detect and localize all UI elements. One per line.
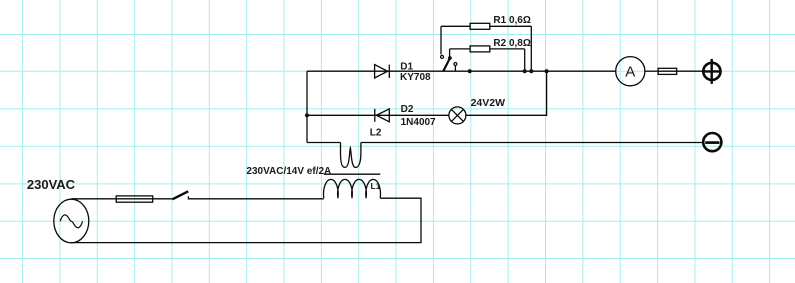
wire: lamp to rail	[465, 71, 546, 115]
svg-text:A: A	[625, 64, 635, 81]
switch S2 (selects R1/R2): contact wire from R1	[440, 26, 442, 54]
wire: ammeter to fuse	[645, 70, 658, 72]
wire: fuse to switch	[153, 198, 173, 200]
resistor R2 0,8 ohm	[450, 46, 525, 71]
svg-text:R2 0,8Ω: R2 0,8Ω	[493, 38, 530, 49]
ammeter A	[616, 57, 645, 86]
switch S1 lever	[172, 191, 188, 199]
inductor L1 transformer primary	[324, 179, 381, 198]
inductor L2 transformer secondary	[341, 143, 361, 168]
wire: minus rail left of coil	[307, 142, 341, 144]
diode D1 KY708	[375, 65, 390, 78]
node: junction dot R1 drop	[529, 69, 533, 73]
node: junction dot lamp branch	[545, 69, 549, 73]
node: junction dot on rail after switch	[468, 69, 472, 73]
resistor R1 0,6 ohm	[441, 23, 531, 71]
wire: primary from source to fuse	[71, 198, 116, 200]
switch S2 lever	[443, 58, 450, 71]
transformer core line (underline of rating)	[324, 173, 381, 175]
svg-text:L1: L1	[371, 181, 381, 191]
svg-text:R1 0,6Ω: R1 0,6Ω	[493, 15, 530, 26]
terminal minus	[703, 133, 721, 151]
switch S2 contact circle right	[454, 63, 457, 66]
source 230VAC	[54, 199, 89, 243]
lamp 24V2W	[449, 107, 466, 124]
wire: D2 branch horizontal	[307, 114, 449, 116]
svg-text:230VAC: 230VAC	[27, 177, 76, 192]
wire: primary right side down to bottom rail	[71, 198, 421, 242]
switch S2 lever pivot dot	[448, 56, 452, 60]
wire: minus rail right of coil	[361, 142, 704, 144]
wire: left vertical bus	[306, 71, 308, 142]
node: junction of D2 branch on left bus	[305, 113, 309, 117]
fuse F1	[116, 196, 153, 202]
node: junction dot R2 drop	[523, 69, 527, 73]
svg-text:L2: L2	[370, 127, 382, 138]
svg-text:24V2W: 24V2W	[471, 97, 506, 109]
wire: main positive rail from left bus to ammeter	[307, 70, 616, 72]
svg-text:D2: D2	[401, 104, 414, 115]
terminal plus	[703, 59, 721, 84]
wire: switch to transformer primary	[188, 196, 323, 199]
svg-text:D1: D1	[400, 61, 413, 72]
fuse F2	[658, 68, 677, 74]
wire: fuse to plus terminal	[677, 70, 704, 72]
diode D2 1N4007	[375, 109, 390, 122]
switch S2 contact circle left	[441, 55, 444, 58]
svg-text:1N4007: 1N4007	[401, 117, 436, 128]
wire: stub from right contact to rail	[454, 66, 456, 72]
svg-text:KY708: KY708	[400, 72, 431, 83]
svg-text:230VAC/14V ef/2A: 230VAC/14V ef/2A	[246, 166, 331, 177]
